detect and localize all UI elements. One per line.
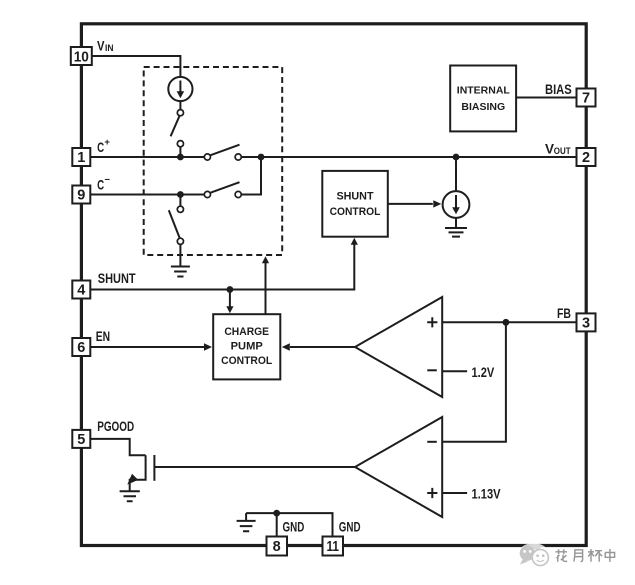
svg-text:SHUNT: SHUNT [336, 191, 373, 203]
svg-text:BIAS: BIAS [545, 82, 572, 97]
svg-text:SHUNT: SHUNT [98, 271, 136, 286]
svg-text:1.13V: 1.13V [472, 485, 502, 501]
svg-text:BIASING: BIASING [461, 102, 505, 113]
svg-text:GND: GND [339, 519, 361, 534]
svg-text:OUT: OUT [554, 146, 571, 156]
svg-text:C: C [97, 177, 104, 193]
svg-text:CONTROL: CONTROL [221, 355, 272, 367]
svg-text:2: 2 [582, 150, 590, 166]
svg-text:3: 3 [582, 316, 590, 332]
svg-text:+: + [104, 137, 110, 148]
svg-text:7: 7 [582, 91, 590, 107]
svg-text:1.2V: 1.2V [472, 364, 495, 380]
svg-text:CHARGE: CHARGE [224, 326, 269, 338]
svg-text:CONTROL: CONTROL [330, 206, 381, 218]
svg-text:INTERNAL: INTERNAL [457, 86, 510, 97]
svg-text:8: 8 [273, 539, 281, 555]
svg-text:V: V [545, 142, 554, 157]
svg-text:10: 10 [74, 49, 89, 65]
svg-text:C: C [97, 139, 104, 155]
svg-text:1: 1 [77, 150, 85, 166]
svg-text:IN: IN [105, 43, 114, 53]
svg-text:4: 4 [77, 283, 85, 299]
svg-text:V: V [97, 38, 105, 53]
svg-text:9: 9 [77, 188, 85, 204]
svg-text:11: 11 [326, 539, 339, 555]
svg-text:6: 6 [77, 340, 85, 356]
svg-text:EN: EN [96, 329, 110, 344]
svg-text:−: − [104, 174, 110, 185]
svg-text:PGOOD: PGOOD [97, 419, 134, 434]
svg-text:5: 5 [77, 432, 85, 448]
svg-text:GND: GND [283, 519, 305, 534]
svg-text:FB: FB [557, 306, 571, 321]
svg-text:PUMP: PUMP [231, 341, 263, 353]
